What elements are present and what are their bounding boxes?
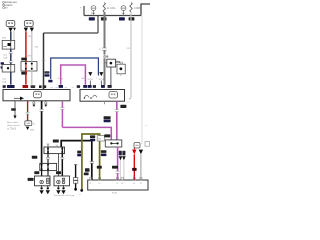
arrow end x15 [13, 116, 16, 119]
joint connector box J01 [21, 62, 37, 72]
arrow under C01 pin2 [13, 28, 16, 31]
magenta U wire [61, 65, 86, 85]
gray wire GL2 [104, 12, 106, 85]
bus line 2 [44, 32, 99, 34]
fuse F2 COMB [130, 3, 132, 13]
tick break on maroon [27, 112, 29, 114]
wires below B2 [41, 171, 43, 176]
label blob E06 G06 [7, 85, 15, 88]
svg-text:o "1"o-2: o "1"o-2 [8, 128, 17, 131]
red wire label blob [132, 168, 136, 171]
label blob G04 [120, 105, 126, 108]
GL1 end hook [129, 97, 131, 100]
label blob nb-right [93, 85, 96, 88]
black n-wire top [61, 141, 92, 180]
black wire x75.6 [75, 165, 77, 189]
red arrow [132, 150, 136, 155]
relay out stub [110, 67, 112, 85]
svg-text:-o-: -o- [65, 87, 68, 89]
olive U wire [82, 134, 100, 190]
label E50 [103, 55, 109, 59]
tiny box D3 [145, 142, 150, 147]
bus corner top-right [141, 4, 150, 16]
wire dark C/B upper [31, 31, 33, 61]
svg-text:BPR6ES, A09: BPR6ES, A09 [5, 1, 17, 4]
ticks [116, 170, 120, 172]
svg-text:C/R: C/R [27, 36, 31, 38]
label blob G03 [89, 17, 95, 20]
magenta main wire from box2 [116, 101, 118, 109]
magenta horizontal [62, 127, 111, 139]
magenta wire M1 down from box1 [61, 101, 63, 108]
light gray wire GL1 [130, 12, 132, 97]
label blob above J01 [21, 58, 27, 61]
label E7B G0B [45, 71, 50, 73]
label blob magenta-left [59, 85, 63, 88]
magenta label blob [112, 166, 118, 169]
tick break on blue wire 2 [10, 61, 12, 62]
label blob far-left [3, 85, 6, 88]
arrow under C02 pin2 [30, 28, 34, 32]
label blob G04 above B1 [53, 140, 59, 143]
svg-text:C0B: C0B [2, 81, 7, 83]
svg-text:Main switch: Main switch [7, 121, 19, 124]
W1 connector ticks [40, 108, 44, 110]
main switch/lock box (box2) [80, 90, 125, 102]
wire W0 down to switch box [43, 33, 45, 90]
tiny blobs above arrows [119, 151, 122, 156]
connector C01 top-left [6, 20, 15, 27]
joint box B1 [44, 147, 65, 154]
svg-text:E50: E50 [104, 55, 109, 59]
svg-text:C/B: C/B [34, 47, 38, 49]
svg-text:v v: v v [127, 102, 130, 104]
fuse symbol circle 2 [121, 6, 126, 16]
coil left ground b [46, 185, 50, 194]
label blobs C04 E04 [90, 135, 95, 138]
label blob extra right [101, 85, 105, 88]
switch box (box1) [3, 90, 70, 101]
tick on W2 [61, 157, 63, 159]
GL2 inline connector [99, 48, 107, 51]
arrow under navy box right [99, 72, 103, 76]
ignition coil box left [35, 176, 51, 186]
label blob G0B coil [28, 178, 34, 181]
olive right wire label [97, 166, 102, 169]
svg-text:COMB: COMB [134, 7, 142, 10]
x75.6 inline connector [73, 178, 77, 181]
stub wire x15 [14, 101, 16, 116]
red stem under CT [133, 148, 135, 150]
tick on W0 [42, 60, 46, 62]
wire blue W-E06 lower [10, 72, 12, 85]
olive left end dot [80, 189, 83, 192]
thick black wire W1 [41, 101, 43, 110]
light wire to ECM [120, 160, 122, 180]
svg-text:-o-: -o- [55, 87, 58, 89]
label blobs E7A G0A [104, 116, 111, 119]
gray wire to ECM [140, 154, 142, 180]
x75.6 end dot [74, 188, 77, 191]
label blob relay-out [108, 85, 112, 88]
label blob nb-left [88, 85, 92, 88]
M1 connector ticks [60, 107, 64, 109]
tick on S1 [47, 157, 49, 159]
red wire to ECM [133, 154, 135, 180]
legend note 2 [3, 4, 13, 7]
pin symbol pair a under box1 [32, 102, 36, 107]
label blob left of ECM [84, 173, 89, 176]
svg-text:15A: 15A [91, 12, 95, 15]
magenta connector ticks [115, 109, 119, 111]
legend note 1 [3, 1, 17, 4]
ignition coil box right [54, 176, 70, 186]
tick break on blue wire [10, 52, 12, 53]
wire down x98 [97, 16, 99, 34]
maroon end connector [25, 121, 32, 126]
stub right coil pin [57, 154, 59, 176]
coil right ground b [61, 185, 65, 194]
joint box B2 [40, 163, 57, 170]
stub navy right [100, 81, 102, 85]
down arrows to light wire [119, 156, 123, 160]
label blob G0B left [32, 156, 38, 159]
svg-text:5M: 5M [98, 139, 101, 141]
coil right ground a [56, 185, 60, 194]
wire blue W-E06 mid [10, 49, 12, 64]
arrow under C01 pin1 [8, 28, 13, 32]
label blob G03b [101, 17, 107, 20]
wire W2 below B1 [61, 154, 63, 176]
connector CT right [134, 143, 140, 149]
wire blue W-E06 upper [10, 31, 12, 40]
wire red W-G07 lower [25, 71, 27, 85]
svg-text:2nd ignition coil assy: 2nd ignition coil assy [54, 194, 75, 197]
condenser box [2, 65, 15, 73]
svg-text:E7N: E7N [115, 61, 120, 64]
label blob pin2 [43, 85, 47, 88]
label blob dark [31, 85, 36, 88]
svg-text:-o-: -o- [51, 87, 54, 89]
magenta below G06 [117, 147, 119, 171]
stub navy left [89, 81, 91, 85]
label blobs on olive left leg [77, 151, 81, 154]
navy enclosure end label [48, 80, 52, 83]
svg-text:C0A: C0A [3, 56, 8, 59]
olive right label blobs [101, 150, 107, 153]
svg-text:ECM: ECM [112, 193, 117, 195]
label blob above LC [34, 171, 39, 174]
label blob below J01 [21, 72, 27, 75]
label blob pin [39, 85, 42, 88]
noise suppressor box [2, 40, 15, 49]
label blob G06 [104, 134, 110, 137]
coil left ground a [39, 185, 43, 194]
label blob on black leg [85, 168, 90, 171]
maroon wire [27, 101, 29, 121]
svg-text:Relay: Relay [58, 78, 64, 80]
navy enclosure (relay assembly outline) [51, 58, 99, 79]
E7N component [115, 61, 126, 76]
wire dark C/B lower [31, 71, 33, 85]
label blob magenta-right [83, 85, 87, 88]
label blob red G07 [23, 85, 29, 88]
SMH tiny box [97, 136, 104, 141]
legend note 3 [3, 7, 8, 10]
label blob G05a [129, 17, 135, 20]
olive tick [80, 146, 84, 148]
svg-text:IG COIL: IG COIL [107, 7, 116, 10]
label blobs left of condenser [1, 62, 4, 64]
thin stub from C01 pin2 [13, 31, 15, 41]
svg-text:Y/B: Y/B [126, 48, 130, 50]
bus line B+ [84, 15, 141, 17]
arrow under maroon connector [26, 127, 30, 130]
faint wire right [141, 16, 143, 145]
relay box [104, 59, 117, 67]
label blob above RC [56, 171, 61, 174]
stub S1 [47, 154, 49, 164]
joint box G06 [105, 140, 122, 147]
pin symbol pair b under box1 [44, 102, 48, 107]
arrow under navy box left [88, 72, 92, 76]
fuse F1 IG COIL [103, 3, 105, 13]
stub below box2 [104, 101, 106, 104]
tick on black right leg [91, 162, 93, 164]
svg-text:(Stop switch): (Stop switch) [7, 124, 20, 127]
stub above B1 [47, 144, 49, 147]
arrow under C02 pin1 [24, 28, 28, 32]
connector C02 top [24, 20, 33, 27]
wire red W-G07 upper [25, 31, 27, 61]
black arrow right [139, 150, 143, 155]
label blob box2-left [77, 85, 80, 88]
label blob on stub x15 [11, 108, 16, 111]
svg-text:0.9: 0.9 [5, 7, 8, 9]
ECM box [88, 177, 148, 190]
fuse symbol circle 1 [91, 6, 96, 16]
label blob E08 [119, 17, 125, 20]
